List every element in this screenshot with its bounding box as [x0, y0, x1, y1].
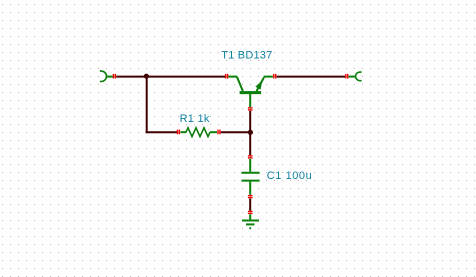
- emitter arrow: [255, 80, 262, 89]
- wire: corner to R1 left pin: [146, 131, 178, 133]
- svg-text:R1 1k: R1 1k: [180, 113, 210, 125]
- wire: left terminal to junction A: [116, 76, 146, 78]
- wire: R1 right pin to junction B: [221, 131, 250, 133]
- wire: T1 emitter pin to right terminal: [277, 76, 345, 78]
- svg-text:C1 100u: C1 100u: [267, 170, 312, 182]
- terminal left input: [100, 71, 114, 81]
- capacitor C1: [241, 155, 259, 198]
- pin marker: right terminal pin: [345, 74, 348, 79]
- svg-text:T1 BD137: T1 BD137: [221, 50, 272, 62]
- collector lead: [228, 76, 237, 78]
- resistor R1: [177, 128, 221, 137]
- pin marker: C1 bottom: [248, 195, 253, 198]
- ground: [242, 211, 259, 229]
- pin marker: ground pin: [248, 211, 253, 214]
- base lead down: [249, 94, 251, 107]
- base bar: [240, 91, 262, 94]
- transistor T1: [225, 74, 276, 111]
- junction A: [144, 74, 149, 79]
- terminal right output: [349, 72, 362, 81]
- junction B: [248, 130, 253, 135]
- wire: junction A to T1 collector pin: [147, 76, 225, 78]
- emitter lead: [264, 76, 273, 78]
- pin marker: C1 top: [248, 155, 253, 158]
- wire: C1 bottom pin to ground: [249, 199, 251, 211]
- pin marker: left terminal pin: [113, 74, 116, 79]
- pin marker: T1 collector: [225, 74, 228, 79]
- wire: T1 base to junction B: [249, 111, 251, 132]
- wire: junction B to C1 top pin: [249, 132, 251, 155]
- wire: junction A down to corner: [146, 77, 148, 134]
- pin marker: T1 base: [248, 107, 253, 110]
- pin marker: T1 emitter: [273, 74, 276, 79]
